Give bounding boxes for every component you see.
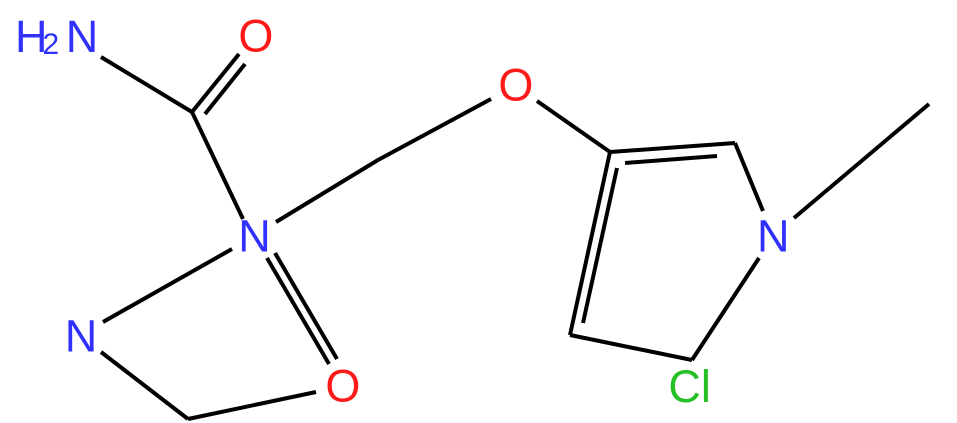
svg-text:N: N [757, 211, 790, 262]
carbonyl C1=O1 double bond [192, 54, 239, 112]
svg-text:N: N [238, 211, 271, 262]
svg-text:O: O [498, 60, 533, 111]
wire B to O2 [378, 99, 491, 160]
svg-text:N: N [65, 311, 98, 362]
ring edge T to N3 [735, 143, 763, 211]
wire N3 to methyl [794, 104, 929, 218]
svg-text:Cl: Cl [668, 361, 711, 412]
wire C1 to N1 [192, 112, 243, 219]
atom label H2N [15, 11, 98, 62]
ring edge N3 to ClC [692, 258, 759, 360]
svg-text:2: 2 [43, 28, 60, 61]
svg-text:O: O [238, 11, 273, 62]
ring edge W to P, aromatic double [570, 152, 610, 335]
ring edge ClC to W [570, 335, 692, 360]
wire N1 to B [276, 160, 378, 222]
wire N2 to A [101, 352, 188, 419]
wire N1 to N2 [103, 249, 232, 322]
wire H2N to C1 [101, 57, 192, 112]
svg-text:N: N [66, 11, 99, 62]
double bond N1=O3 [267, 258, 329, 364]
ring edge P to T, aromatic double [610, 143, 735, 152]
wire A to O3 [188, 392, 316, 419]
wire O2 to ring P [537, 101, 610, 152]
svg-text:O: O [325, 361, 360, 412]
